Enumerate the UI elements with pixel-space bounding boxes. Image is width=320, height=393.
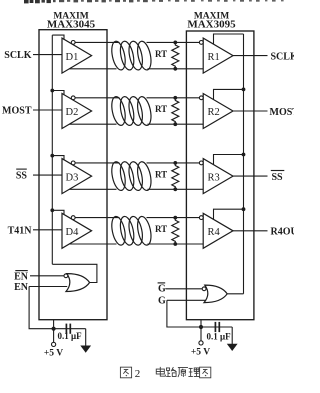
svg-text:G: G [158, 283, 166, 294]
wire VCC pin U1 to bypass net [53, 320, 55, 329]
junction RT4 bottom [173, 242, 177, 246]
junction enable rail / R4 [242, 207, 246, 211]
svg-text:R4OUT: R4OUT [271, 227, 295, 238]
wire SCLK input to D1 [33, 54, 62, 56]
OR gate U2 enable (G logic) [204, 285, 227, 303]
ground symbol right [231, 327, 233, 344]
junction RT3 top [173, 161, 177, 165]
svg-text:D4: D4 [66, 227, 80, 238]
node G label [158, 296, 166, 307]
wire R4 output [233, 230, 268, 232]
IC U1 label MAXIM MAX3045 [47, 12, 96, 31]
node SS (left input label) [16, 171, 28, 182]
wire +5V feed left [53, 329, 55, 343]
junction RT1 top [173, 41, 177, 45]
driver D2 [62, 94, 92, 129]
power label +5 V left [44, 349, 63, 359]
inverting input bubble of R3 [199, 161, 203, 165]
value label RT3 [155, 169, 167, 179]
svg-text:SCLK: SCLK [4, 50, 31, 61]
node T41N (left input label) [8, 225, 33, 236]
junction enable rail / R3 [242, 153, 246, 157]
wire D1 output (bottom) [69, 68, 116, 70]
svg-text:+5 V: +5 V [191, 348, 210, 358]
clipped text line (bottom sliver of previous paragraph) [24, 0, 284, 3]
value label RT2 [155, 104, 167, 114]
overline for SS [16, 168, 27, 170]
svg-text:RT: RT [155, 49, 167, 59]
inverting input bubble of R1 [199, 41, 203, 45]
caption figure 2 (drawn CJK glyphs) [120, 367, 210, 380]
wire gate output to enable rail [52, 264, 97, 282]
junction RT3 bottom [173, 187, 177, 191]
wire G tied to +5V (down) [167, 300, 201, 327]
svg-text:SS: SS [16, 171, 28, 182]
wire pair top to RT1 and R1 [147, 41, 200, 43]
wire pair bottom to RT3 and R3 [148, 188, 204, 190]
wire pair top to RT3 and R3 [147, 162, 200, 164]
wire pair bottom to RT4 and R4 [148, 243, 204, 245]
OR gate U1 enable (EN logic) [66, 274, 90, 292]
terminal +5V left (open circle) [52, 342, 56, 346]
svg-text:T41N: T41N [8, 225, 33, 236]
wire pair bottom to RT1 and R1 [148, 68, 204, 70]
wire bypass net right [201, 326, 232, 328]
wire MOST input to D2 [33, 109, 62, 111]
inverting output bubble of D3 [71, 161, 75, 165]
wire pair top to RT2 and R2 [147, 97, 200, 99]
overline for right SS [271, 170, 285, 172]
wire D2 output (bottom) [69, 123, 116, 125]
junction enable rail / D2 [50, 89, 54, 93]
svg-text:D2: D2 [66, 107, 79, 118]
inverting output bubble of D2 [71, 96, 75, 100]
value label C1 0.1 uF [58, 331, 83, 341]
wire enable tap of R2 [214, 89, 244, 99]
wire D1 inverting output (top) [75, 41, 119, 43]
wire right gate output to enable rail [227, 293, 243, 295]
junction enable rail / D3 [50, 154, 54, 158]
terminal +5V right (open circle) [199, 341, 203, 345]
junction RT2 top [173, 96, 177, 100]
node SCLK (left input label) [4, 50, 31, 61]
svg-text:MOST: MOST [2, 106, 32, 117]
value label RT4 [155, 224, 167, 234]
overline for G [158, 282, 166, 284]
svg-text:RT: RT [155, 224, 167, 234]
svg-text:MAX3045: MAX3045 [47, 18, 96, 30]
wire D3 inverting output (top) [75, 162, 119, 164]
junction +5V / bypass left [52, 327, 56, 331]
node EN-bar label [14, 272, 29, 283]
capacitor C2 0.1uF plates [214, 322, 216, 332]
svg-text:SCLK: SCLK [271, 52, 295, 63]
ground symbol left [85, 329, 87, 346]
resistor RT2 termination [172, 98, 179, 124]
wire D4 output (bottom) [69, 243, 116, 245]
node R4OUT (right output label) [271, 227, 305, 238]
wire SS input to D3 [33, 174, 62, 176]
receiver R2 [203, 94, 233, 129]
svg-text:+5 V: +5 V [44, 349, 63, 359]
svg-text:MAX3095: MAX3095 [187, 18, 236, 30]
inverting input bubble of R2 [199, 96, 203, 100]
inverting input bubble EN [64, 274, 68, 278]
svg-text:R2: R2 [208, 107, 220, 118]
svg-text:SS: SS [272, 172, 284, 183]
junction +5V / bypass right [199, 325, 203, 329]
junction RT2 bottom [173, 122, 177, 126]
twisted pair cable channel 4 [109, 215, 153, 246]
value label RT1 [155, 49, 167, 59]
node G-bar label [158, 283, 166, 294]
node SCLK (right output label) [271, 52, 298, 63]
wire T41N input to D4 [33, 229, 62, 231]
net EN rail (driver enable bus) [51, 35, 53, 264]
svg-text:RT: RT [155, 169, 167, 179]
node MOST (left input label) [2, 106, 32, 117]
wire enable tap to D1 [52, 35, 64, 40]
junction RT1 bottom [173, 67, 177, 71]
wire R2 output [233, 110, 268, 112]
inverting output bubble of D4 [71, 216, 75, 220]
svg-text:D1: D1 [66, 52, 79, 63]
wire enable tap to D2 [52, 91, 64, 96]
inverting input bubble of R4 [199, 216, 203, 220]
IC U2 MAX3095 package outline [186, 31, 254, 320]
wire enable tap of R4 [214, 209, 244, 219]
wire enable tap to D4 [52, 210, 64, 215]
svg-text:R4: R4 [208, 227, 221, 238]
wire G input [167, 299, 206, 301]
junction RT4 top [173, 216, 177, 220]
IC U2 label MAXIM MAX3095 [187, 12, 236, 31]
resistor RT3 termination [172, 163, 179, 189]
svg-text:RT: RT [155, 104, 167, 114]
twisted pair cable channel 3 [109, 161, 153, 192]
capacitor C1 0.1uF plates [65, 324, 67, 334]
wire D2 inverting output (top) [75, 97, 119, 99]
value label C2 0.1 uF [207, 332, 232, 342]
wire enable tap of R1 [214, 34, 244, 44]
inverting output bubble of D1 [71, 41, 75, 45]
svg-text:R3: R3 [208, 172, 220, 183]
twisted pair cable channel 2 [109, 95, 153, 126]
svg-text:R1: R1 [208, 52, 220, 63]
svg-text:D3: D3 [66, 172, 79, 183]
node EN label [14, 282, 29, 293]
wire EN input [29, 286, 67, 288]
twisted pair cable channel 1 [109, 40, 153, 71]
wire EN-bar input [30, 275, 64, 277]
node SS (right output label) [272, 172, 284, 183]
wire VCC pin U2 to bypass net [200, 320, 202, 327]
svg-text:EN: EN [14, 282, 29, 293]
resistor RT1 termination [172, 42, 179, 68]
svg-text:EN: EN [14, 272, 29, 283]
wire R3 output [233, 175, 268, 177]
svg-text:MOST: MOST [270, 107, 295, 118]
wire +5V feed right [200, 327, 202, 341]
junction enable rail / R2 [242, 88, 246, 92]
svg-text:0.1 μF: 0.1 μF [58, 331, 83, 341]
net G rail (receiver enable bus) [243, 34, 245, 294]
driver D3 [62, 159, 92, 194]
wire G-bar input [166, 288, 203, 290]
overline for EN [15, 270, 27, 272]
resistor RT4 termination [172, 218, 179, 244]
receiver R4 [203, 213, 233, 248]
IC U1 MAX3045 package outline [39, 30, 107, 320]
wire pair top to RT4 and R4 [147, 217, 200, 219]
driver D4 [62, 213, 92, 248]
wire D4 inverting output (top) [75, 217, 119, 219]
junction enable rail / D4 [50, 208, 54, 212]
receiver R1 [203, 38, 233, 73]
receiver R3 [203, 159, 233, 194]
wire pair bottom to RT2 and R2 [148, 123, 204, 125]
wire R1 output [233, 55, 268, 57]
wire D3 output (bottom) [69, 188, 116, 190]
wire enable tap to D3 [52, 156, 64, 161]
power label +5 V right [191, 348, 210, 358]
driver D1 [62, 38, 92, 73]
inverting input bubble G [202, 287, 206, 291]
wire EN tied to +5V (down left side) [29, 287, 53, 329]
svg-text:2: 2 [135, 368, 141, 380]
svg-text:0.1 μF: 0.1 μF [207, 332, 232, 342]
svg-text:G: G [158, 296, 166, 307]
wire enable tap of R3 [214, 155, 244, 165]
node MOST (right output label) [270, 107, 300, 118]
wire bypass net left [54, 328, 86, 330]
